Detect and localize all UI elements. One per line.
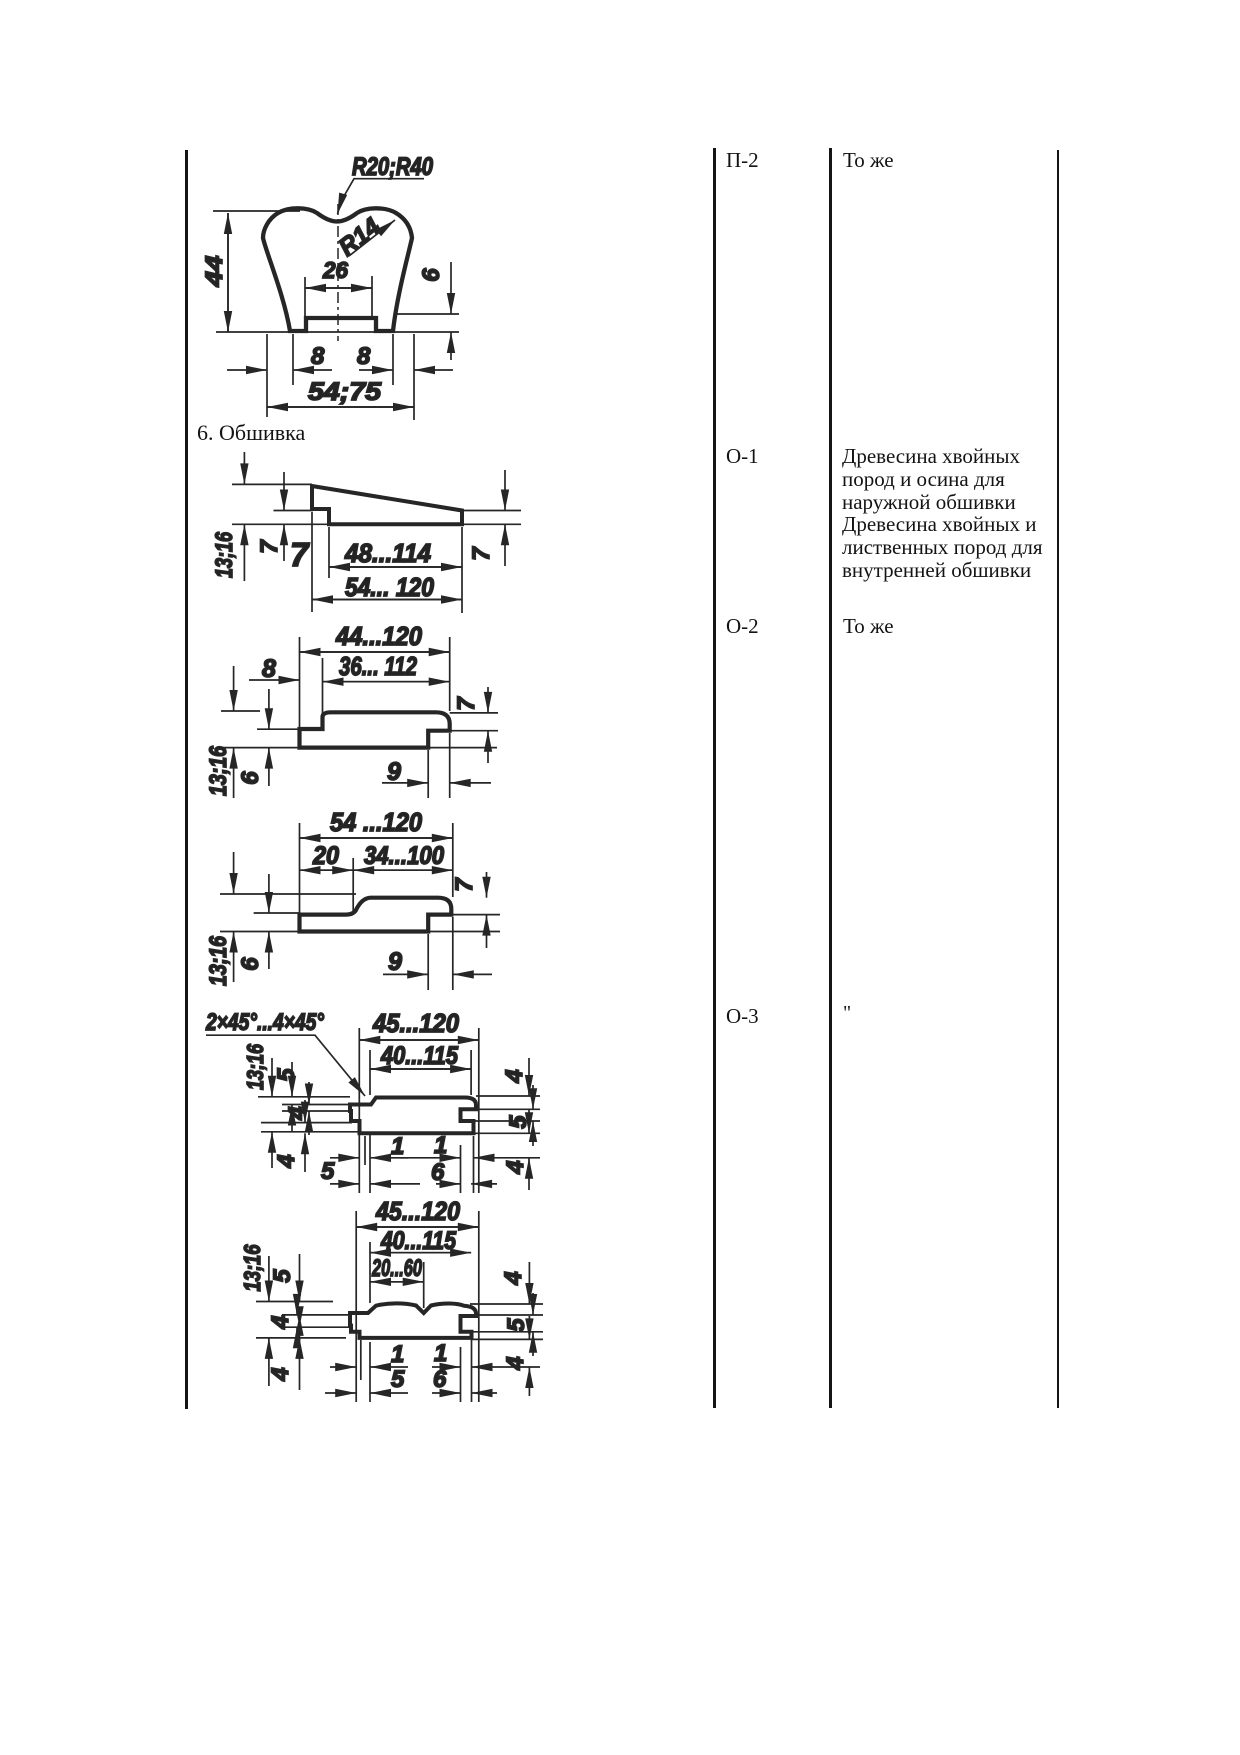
svg-text:4: 4 xyxy=(284,1106,311,1120)
svg-text:6: 6 xyxy=(431,1159,445,1186)
wire left extensions xyxy=(258,1097,360,1132)
dimension 4 right top xyxy=(528,1262,530,1304)
profile О-2a outline xyxy=(300,712,450,747)
svg-text:54;75: 54;75 xyxy=(308,378,382,406)
dimension 9 xyxy=(383,973,428,975)
svg-text:4: 4 xyxy=(500,1271,527,1285)
wire right step extension xyxy=(396,313,459,315)
dimension 8 xyxy=(249,679,300,681)
cell text О-3 xyxy=(726,1005,759,1028)
svg-text:5: 5 xyxy=(505,1115,532,1129)
dimension 48...114 xyxy=(329,566,462,568)
dimension 1 left xyxy=(330,1366,356,1368)
extension verticals bottom xyxy=(365,1135,474,1193)
wire right extensions xyxy=(450,713,498,731)
svg-text:R20;R40: R20;R40 xyxy=(352,153,433,181)
wire right extensions xyxy=(470,1304,543,1339)
cell paragraph row О-1 xyxy=(842,445,1043,582)
svg-text:9: 9 xyxy=(388,948,402,976)
dimension 4 left bottom xyxy=(299,1310,301,1327)
extension verticals top xyxy=(300,823,453,913)
svg-text:13;16: 13;16 xyxy=(205,935,232,986)
dimension 5 bottom xyxy=(330,1183,359,1185)
wire right extensions xyxy=(474,1096,541,1133)
svg-text:7: 7 xyxy=(256,539,283,554)
dimension 5 left xyxy=(299,1254,301,1302)
long extension verticals xyxy=(359,1028,479,1193)
profile О-2b outline xyxy=(300,898,452,932)
svg-text:2×45°...4×45°: 2×45°...4×45° xyxy=(205,1009,324,1036)
dimension 20 xyxy=(300,869,354,871)
section header 6. Обшивка xyxy=(197,422,305,445)
dimension 13;16 xyxy=(233,666,235,711)
dimension 36...112 xyxy=(323,681,450,683)
wire left extensions xyxy=(256,1302,352,1338)
dimension 5 right xyxy=(532,1085,534,1109)
dimension 44 xyxy=(227,213,229,332)
svg-text:40...115: 40...115 xyxy=(380,1042,459,1070)
svg-text:4: 4 xyxy=(502,1356,529,1370)
dimension 4 left bottom xyxy=(304,1100,306,1123)
svg-text:6: 6 xyxy=(237,771,264,785)
svg-text:5: 5 xyxy=(269,1269,296,1283)
svg-text:20: 20 xyxy=(312,842,339,870)
svg-text:1: 1 xyxy=(391,1341,404,1368)
svg-text:4: 4 xyxy=(267,1367,294,1381)
dimension 5 bottom xyxy=(325,1392,356,1394)
svg-text:5: 5 xyxy=(391,1366,405,1393)
svg-text:7: 7 xyxy=(468,546,495,561)
svg-text:20...60: 20...60 xyxy=(371,1255,422,1282)
cell text П-2 xyxy=(726,149,759,172)
svg-text:7: 7 xyxy=(290,536,310,573)
wire right extension xyxy=(451,914,500,916)
dimension 54...120 xyxy=(312,599,462,601)
dimension 13;16 xyxy=(243,452,245,484)
dimension 8 right xyxy=(359,369,393,371)
profile П-2 outline xyxy=(263,208,412,331)
dimension 20...60 xyxy=(370,1281,424,1283)
svg-text:4: 4 xyxy=(502,1160,529,1174)
extension verticals bottom xyxy=(361,1334,472,1402)
wire mid-left extension xyxy=(274,510,314,512)
svg-text:1: 1 xyxy=(391,1133,404,1160)
wire top-left extension xyxy=(232,483,312,485)
table rule: col 2 xyxy=(713,148,716,1408)
svg-text:44: 44 xyxy=(201,256,228,288)
svg-text:4: 4 xyxy=(267,1315,294,1329)
extension verticals xyxy=(312,512,462,613)
leader R20;R40 xyxy=(340,179,424,203)
dimension 4 left mid xyxy=(308,1082,310,1105)
dimension 13;16 left xyxy=(268,1256,270,1302)
svg-text:8: 8 xyxy=(311,343,325,370)
centerline xyxy=(337,204,339,341)
svg-text:4: 4 xyxy=(273,1154,300,1168)
profile О-1 outline xyxy=(312,486,462,524)
svg-text:8: 8 xyxy=(262,655,276,683)
dimension 54;75 xyxy=(267,406,414,408)
svg-text:40...115: 40...115 xyxy=(380,1227,457,1255)
long extension verticals xyxy=(356,1211,479,1402)
cell text О-2 xyxy=(726,615,759,638)
wire right extensions xyxy=(462,511,521,525)
dimension 26 extension lines xyxy=(305,276,372,320)
svg-text:44...120: 44...120 xyxy=(335,621,422,651)
extension verticals inner xyxy=(370,1242,424,1308)
dimension 54...120 xyxy=(300,837,453,839)
svg-text:5: 5 xyxy=(503,1318,530,1332)
svg-text:45...120: 45...120 xyxy=(372,1008,459,1038)
dimension 4 right bottom xyxy=(528,1316,530,1339)
dimension 45...120 xyxy=(356,1226,479,1228)
dimension 6 xyxy=(268,689,270,729)
dimension 1 left xyxy=(330,1157,359,1159)
svg-text:8: 8 xyxy=(357,343,371,370)
dimension 1 right xyxy=(432,1366,461,1368)
leader R14 xyxy=(349,220,395,256)
extension verticals top xyxy=(300,637,450,728)
dimension 7 right xyxy=(486,872,488,898)
dimension 9 xyxy=(382,782,428,784)
dimension 5 right xyxy=(532,1293,534,1315)
svg-text:13;16: 13;16 xyxy=(211,532,238,578)
dimension 7 left rotated xyxy=(283,472,285,511)
svg-text:9: 9 xyxy=(387,758,401,786)
wire left extensions xyxy=(221,711,300,729)
extension verticals inner xyxy=(370,1050,471,1095)
dimension 34...100 xyxy=(353,869,453,871)
dimension 8 left xyxy=(227,369,267,371)
wire bottom extension left xyxy=(232,523,330,525)
dimension 6 bottom xyxy=(436,1183,461,1185)
svg-text:6: 6 xyxy=(433,1366,447,1393)
dimension 1 right xyxy=(400,1157,461,1159)
cell ditto mark (row О-3) xyxy=(843,1002,851,1025)
svg-text:5: 5 xyxy=(273,1068,300,1082)
svg-text:45...120: 45...120 xyxy=(375,1196,460,1226)
dimension 40...115 xyxy=(370,1068,471,1070)
extension verticals bottom xyxy=(428,917,453,990)
dimension 45...120 xyxy=(359,1039,479,1041)
svg-text:6: 6 xyxy=(418,268,445,282)
wire left extensions xyxy=(220,894,356,913)
dimension 4 left mid xyxy=(296,1295,298,1315)
svg-text:48...114: 48...114 xyxy=(344,538,431,568)
dimension 44...120 xyxy=(300,651,450,653)
cell text О-1 xyxy=(726,445,759,468)
dimension 5 left xyxy=(291,1062,293,1097)
profile О-3a outline xyxy=(350,1098,476,1134)
table rule: left border xyxy=(185,150,188,1409)
extension verticals bottom xyxy=(428,733,450,798)
wire baseline xyxy=(220,931,500,933)
svg-text:1: 1 xyxy=(434,1340,447,1367)
svg-text:6: 6 xyxy=(237,957,264,971)
dimension 26 xyxy=(305,287,372,289)
dimension 13;16 xyxy=(233,852,235,894)
dimension 40...115 xyxy=(370,1252,471,1254)
dimension 7 right xyxy=(487,687,489,713)
svg-text:7: 7 xyxy=(453,696,480,711)
svg-text:34...100: 34...100 xyxy=(364,842,444,870)
profile О-3b outline xyxy=(350,1303,476,1338)
svg-text:5: 5 xyxy=(321,1158,335,1185)
svg-text:1: 1 xyxy=(434,1132,447,1159)
bottom extension lines xyxy=(267,334,414,420)
cell text То же (row П-2) xyxy=(843,149,894,172)
dimension 6 bottom xyxy=(432,1392,461,1394)
wire baseline extension xyxy=(216,331,459,333)
table rule: col 3 xyxy=(829,148,832,1408)
svg-text:13;16: 13;16 xyxy=(205,745,232,796)
svg-text:36... 112: 36... 112 xyxy=(339,651,417,681)
cell text То же (row О-2) xyxy=(843,615,894,638)
dimension 13;16 left xyxy=(271,1058,273,1097)
dimension 4 right bottom xyxy=(528,1110,530,1133)
dimension 4 right top xyxy=(528,1058,530,1096)
svg-text:13;16: 13;16 xyxy=(242,1044,268,1090)
dimension 7 right xyxy=(504,470,506,511)
dimension 6 xyxy=(268,874,270,913)
svg-text:4: 4 xyxy=(501,1069,528,1083)
table rule: col 4 xyxy=(1057,150,1059,1408)
wire top extension line xyxy=(213,210,300,212)
svg-text:54... 120: 54... 120 xyxy=(345,572,434,602)
leader 2x45 xyxy=(206,1035,365,1096)
wire baseline xyxy=(220,747,497,749)
svg-text:7: 7 xyxy=(451,877,478,892)
dimension 6 right xyxy=(450,262,452,314)
svg-text:26: 26 xyxy=(322,257,348,283)
svg-text:54 ...120: 54 ...120 xyxy=(330,807,422,837)
svg-text:13;16: 13;16 xyxy=(239,1244,265,1291)
